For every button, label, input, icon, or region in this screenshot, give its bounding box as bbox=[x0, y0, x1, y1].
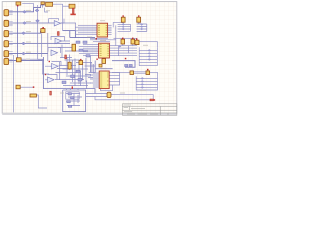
connector J2 bbox=[4, 20, 9, 26]
capacitor Y3b bbox=[99, 64, 102, 67]
power dot U2 corner bbox=[96, 59, 97, 60]
title text dash 7 bbox=[150, 113, 158, 115]
power dot P7 bbox=[33, 86, 35, 88]
wire U1 left rows bbox=[75, 25, 97, 34]
wire from T3 down bbox=[53, 4, 63, 30]
bead TR2 row2 bbox=[140, 26, 143, 28]
wire OA3 input bbox=[45, 66, 52, 80]
title text dash 5 bbox=[127, 113, 135, 115]
wire right y41.5 to CB1 bbox=[140, 42, 158, 48]
wire Y12 row bbox=[20, 86, 33, 88]
wire bus row4 bbox=[9, 43, 70, 45]
power dot P1 bbox=[17, 5, 19, 7]
resistor R4 red bbox=[50, 91, 52, 95]
sheet border frame bbox=[2, 2, 177, 114]
capacitor T3 bbox=[46, 2, 53, 6]
title text dash 2 bbox=[124, 107, 128, 109]
title block outline bbox=[122, 104, 176, 116]
net label 12 bbox=[46, 10, 50, 12]
wire to T4 bbox=[63, 5, 69, 7]
red ground bar bbox=[70, 14, 75, 16]
IC U2 pin marks bbox=[100, 45, 109, 56]
title block row line 1 bbox=[122, 105, 176, 107]
power dot P3 bbox=[125, 58, 127, 60]
capacitor C20 bbox=[76, 41, 80, 43]
top right pin rows left group bbox=[118, 24, 131, 31]
IC U3 pin marks bbox=[100, 73, 108, 87]
title block row line 2 bbox=[122, 109, 176, 111]
title text dash 1 bbox=[124, 104, 131, 106]
net label 9 bbox=[100, 40, 106, 42]
opamp feedback wires bbox=[48, 37, 65, 80]
wire vertical x43.5 down bbox=[44, 57, 96, 94]
resistor R2 red bbox=[58, 32, 60, 36]
CB1 bead row4 bbox=[148, 58, 152, 60]
capacitor Y4 bbox=[121, 39, 125, 44]
net label 8 bbox=[100, 20, 105, 22]
capacitor C30 bbox=[68, 93, 72, 95]
capacitor T4 bbox=[69, 4, 75, 8]
wire from T1 bbox=[22, 4, 33, 9]
wire bus row2 bbox=[9, 22, 54, 24]
net label 1 bbox=[26, 9, 31, 11]
bead TR2 row1 bbox=[140, 23, 143, 25]
title text dash 4 bbox=[124, 111, 132, 113]
net label 2 bbox=[26, 21, 31, 23]
wire U2 right rows bbox=[110, 46, 137, 56]
wire vertical x47.8 bbox=[47, 33, 49, 61]
wire bus row1 bbox=[9, 5, 45, 12]
capacitor C25 bbox=[71, 75, 75, 78]
resistor R3 red bbox=[65, 55, 67, 59]
wire top corner bbox=[42, 4, 44, 7]
CB2 bead row2 bbox=[141, 80, 145, 82]
right connector block CB2 bbox=[136, 76, 157, 90]
capacitor Y8 bbox=[135, 40, 139, 44]
CB2 bead row4 bbox=[141, 86, 145, 88]
wire right mid long bbox=[112, 61, 135, 68]
capacitor Y5 bbox=[131, 39, 135, 44]
connector pin fans bbox=[9, 11, 13, 62]
title text dash 6 bbox=[138, 113, 148, 115]
title block col line 3 bbox=[167, 113, 169, 115]
center lattice wires bbox=[55, 41, 95, 89]
IC U3 bbox=[99, 71, 109, 89]
op-amp U5B bbox=[48, 77, 55, 83]
capacitor C23 bbox=[86, 55, 90, 57]
resistor R5 red bbox=[150, 99, 153, 101]
wire bus row3 bbox=[9, 31, 41, 33]
op-amp U4B bbox=[51, 50, 58, 56]
capacitor C33 bbox=[68, 105, 72, 107]
bead U2 row bbox=[118, 45, 121, 47]
IC U1 bbox=[97, 23, 108, 37]
power tick OA4 bbox=[45, 74, 46, 75]
CB1 bead row3 bbox=[148, 55, 152, 57]
capacitor C27 bbox=[62, 81, 66, 84]
capacitor Y2b bbox=[79, 61, 83, 65]
net label 13 bbox=[120, 92, 125, 94]
ferrite bead L5 bbox=[22, 32, 26, 35]
power dot P10 bbox=[147, 69, 149, 71]
top right block wires bbox=[113, 23, 138, 28]
IC U1 pin marks bbox=[98, 25, 107, 34]
bottom border shadow line bbox=[2, 113, 177, 115]
connector J1 bbox=[4, 10, 9, 16]
wire vertical x75.5 bbox=[70, 31, 76, 38]
ferrite bead L3 bbox=[23, 22, 27, 25]
wire OA0 loop bbox=[49, 19, 65, 23]
connector J4 bbox=[4, 41, 9, 47]
capacitor Y13 bbox=[30, 94, 36, 97]
capacitor Y3 bbox=[102, 59, 106, 64]
wire staircase second bbox=[45, 8, 48, 12]
capacitor Y9 bbox=[146, 71, 150, 75]
wire lower bottom right bbox=[95, 97, 150, 100]
wire bus row5 bbox=[9, 53, 48, 55]
capacitor QA bbox=[41, 29, 45, 33]
power dot P9 bbox=[132, 38, 134, 40]
wire vertical x37.5 bbox=[38, 5, 44, 59]
capacitor Y11 bbox=[17, 58, 22, 62]
title block row line 3 bbox=[122, 112, 176, 114]
wire Y9 row bbox=[112, 72, 158, 77]
vertical bus left bbox=[17, 4, 19, 60]
capacitor Y9b bbox=[130, 71, 134, 75]
wire vertical x41.5 bbox=[41, 33, 43, 57]
bottom cluster inner box bbox=[66, 92, 79, 99]
capacitor C14 bbox=[129, 64, 132, 66]
CB1 bead row1 bbox=[148, 49, 152, 51]
power tick mid bbox=[72, 86, 73, 89]
wire Y4 stub bbox=[114, 38, 138, 56]
capacitor T2 bbox=[41, 2, 44, 4]
wire OA0 output bbox=[61, 23, 76, 31]
connector J6 bbox=[4, 58, 9, 64]
power dot U1 corner bbox=[96, 38, 97, 39]
power dot P5 bbox=[136, 38, 138, 40]
capacitor C31 bbox=[71, 97, 75, 99]
top right pin rows bbox=[137, 24, 147, 32]
wire vertical x13.5 bbox=[13, 55, 15, 112]
capacitor C24 bbox=[76, 70, 80, 73]
bead TR2 row3 bbox=[140, 28, 143, 30]
resistor R1 red bbox=[73, 8, 75, 13]
ferrite bead L7 bbox=[22, 52, 26, 55]
CB1 pin rows bbox=[139, 50, 157, 62]
wire U3 bottom stub bbox=[101, 85, 113, 91]
ferrite bead L1 bbox=[23, 10, 27, 13]
bottom cluster top stubs bbox=[67, 89, 79, 90]
capacitor C21 bbox=[83, 41, 87, 43]
wire center top bus bbox=[63, 30, 76, 32]
wire inter-IC rows bbox=[90, 38, 116, 41]
capacitor Y6 bbox=[137, 17, 141, 22]
ferrite bead L6 bbox=[22, 42, 26, 45]
relay Y1 bbox=[72, 44, 76, 51]
net label 7 bbox=[140, 89, 146, 91]
right connector block CB1 bbox=[139, 47, 157, 65]
bottom cluster outline bbox=[63, 90, 86, 112]
CB1 bead row2 bbox=[148, 52, 152, 54]
net label 6 bbox=[26, 58, 30, 60]
net label 5 bbox=[26, 51, 31, 53]
crystal Y10 bbox=[107, 92, 111, 97]
capacitor Y12 bbox=[16, 85, 20, 89]
wire bus row6 bbox=[9, 60, 44, 62]
op-amp U4A bbox=[55, 38, 62, 44]
capacitor C13 bbox=[125, 64, 128, 66]
bead TR row3 bbox=[122, 28, 125, 30]
wire center h y37.6 bbox=[70, 37, 95, 39]
power dot P8 bbox=[122, 38, 124, 40]
net label 3 bbox=[26, 31, 31, 33]
title text dash 3 bbox=[131, 107, 145, 109]
wire U2 left rows bbox=[79, 45, 99, 56]
crystal Y2 bbox=[68, 62, 71, 69]
crystal wires bbox=[86, 94, 107, 97]
IC U2 bbox=[99, 43, 110, 58]
op-amp U0 bbox=[54, 21, 60, 26]
power dot P2 bbox=[42, 27, 44, 29]
power dot P4 bbox=[138, 15, 140, 16]
bead TR row2 bbox=[122, 26, 125, 28]
op-amp U5A bbox=[52, 63, 59, 69]
wire U1 right pins bbox=[108, 25, 112, 34]
power tick OA3 bbox=[49, 61, 50, 62]
ferrite bead L4 bbox=[36, 19, 40, 22]
wire Y11 row bbox=[21, 59, 49, 74]
bead TR row1 bbox=[122, 23, 125, 25]
capacitor T1 bbox=[16, 2, 21, 5]
power tick Y7 bbox=[122, 15, 124, 16]
ferrite bead L2 bbox=[35, 9, 39, 12]
capacitor C26 bbox=[78, 78, 82, 81]
capacitor Y7 bbox=[121, 17, 125, 22]
capacitor C32 bbox=[67, 101, 71, 103]
connector J5 bbox=[4, 51, 9, 57]
net label 14 bbox=[60, 92, 64, 94]
capacitor C22 bbox=[79, 49, 83, 51]
net label 4 bbox=[26, 41, 31, 43]
wire U3 top bus bbox=[91, 61, 113, 73]
title block col line 1 bbox=[129, 106, 131, 110]
title block col line 2 bbox=[159, 106, 161, 115]
net label 11 bbox=[143, 44, 148, 46]
sheet background bbox=[0, 0, 180, 117]
wire Y6 stem bbox=[139, 22, 141, 24]
CB2 bead row3 bbox=[141, 83, 145, 85]
power tick Y2b bbox=[80, 59, 81, 60]
wire U1-U2 bracket bbox=[115, 25, 117, 45]
connector J3 bbox=[4, 31, 9, 37]
wire Y13 stub bbox=[37, 95, 48, 108]
net label 15 bbox=[87, 36, 92, 38]
wire long bottom right bbox=[111, 95, 153, 100]
net label 10 bbox=[101, 67, 107, 69]
wire U3 left rows bbox=[90, 73, 99, 87]
wire U3 right bracket bbox=[109, 73, 119, 85]
CB2 bead row1 bbox=[141, 77, 145, 79]
bottom cluster inner wires bbox=[66, 94, 82, 106]
CB2 pin rows bbox=[136, 78, 157, 87]
power dot P6 bbox=[154, 99, 156, 101]
